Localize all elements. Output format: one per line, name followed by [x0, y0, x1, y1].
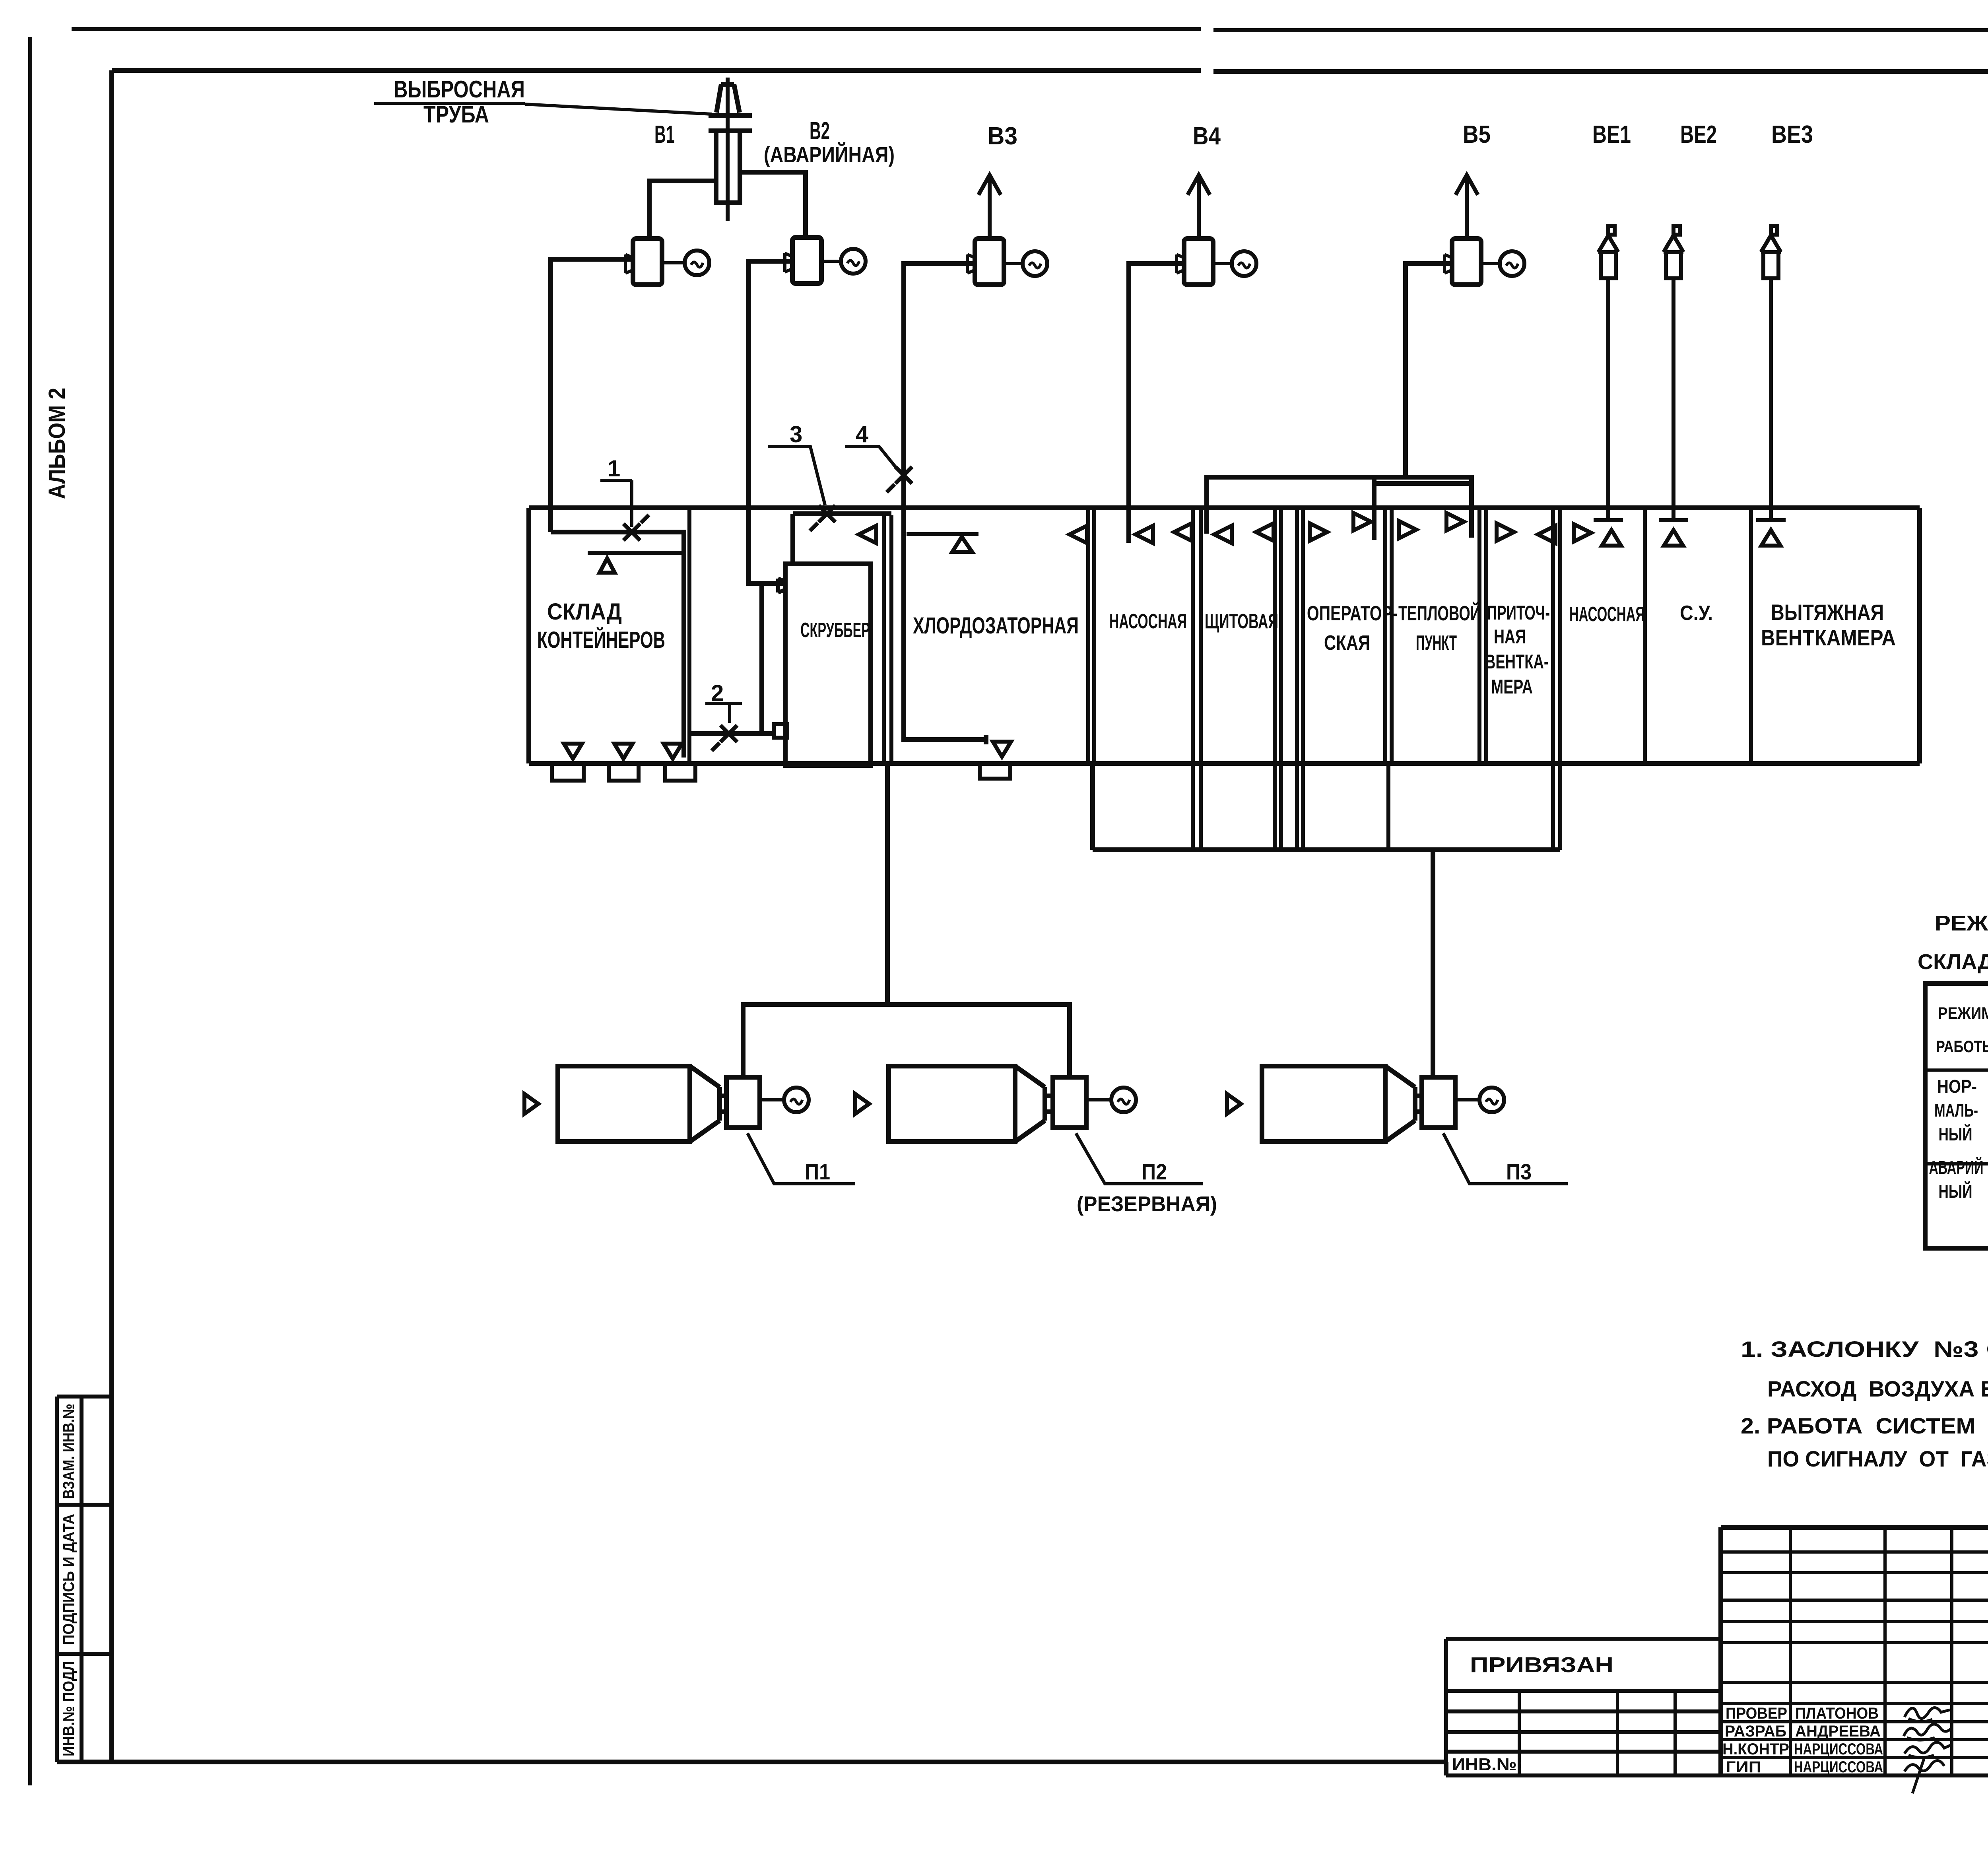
valve 2 label and leader [705, 680, 742, 723]
floor grilles склад [564, 744, 682, 759]
duct collector above building [1207, 477, 1472, 540]
svg-text:РАСХОД ВОЗДУХА В АВАРИЙНОМ Р: РАСХОД ВОЗДУХА В АВАРИЙНОМ РЕЖИМЕ L = 26… [1767, 1376, 1988, 1401]
valve 1 [623, 515, 649, 540]
exhaust stack (выбросная труба) [709, 78, 752, 221]
duct wire B4 intake [1129, 264, 1184, 543]
svg-text:В2: В2 [810, 117, 830, 145]
grille BE1 (bar+triangle) [1594, 520, 1623, 546]
building roof line [529, 505, 1920, 510]
table title [1918, 911, 1988, 974]
sheet top edge line [72, 29, 1988, 30]
duct wire B5 intake [1406, 264, 1452, 477]
wall хлордозаторная/насосная (double) [1088, 508, 1094, 763]
grille BE2 (bar+triangle) [1659, 520, 1688, 546]
svg-text:СКРУББЕР: СКРУББЕР [800, 619, 870, 642]
svg-text:С.У.: С.У. [1680, 602, 1713, 625]
sheet left edge line [28, 37, 32, 1785]
svg-text:МЕРА: МЕРА [1491, 676, 1533, 698]
leader line to exhaust stack [525, 104, 712, 114]
svg-text:ВЕ3: ВЕ3 [1771, 121, 1813, 148]
duct wire stack to fan B2 [740, 172, 806, 237]
airflow triangles left-pointing [859, 523, 1555, 543]
fan B1 [625, 239, 709, 285]
svg-text:В5: В5 [1463, 121, 1491, 148]
duct b1 inside склад [551, 532, 684, 758]
duct склад to scrubber with flange [689, 731, 774, 736]
svg-text:НОР-: НОР- [1937, 1076, 1977, 1097]
foot under хлордозаторная [980, 763, 1010, 779]
svg-text:НАСОСНАЯ: НАСОСНАЯ [1569, 603, 1645, 626]
svg-text:РЕЖИМ: РЕЖИМ [1938, 1004, 1988, 1022]
svg-text:АНДРЕЕВА: АНДРЕЕВА [1795, 1723, 1881, 1740]
label П1 [747, 1133, 855, 1184]
duct collector to П1 П2 [743, 1004, 1070, 1077]
feet under склад [552, 763, 695, 781]
svg-text:НАРЦИССОВА: НАРЦИССОВА [1794, 1758, 1883, 1776]
grille склад (line+triangle) [588, 553, 683, 573]
svg-text:РЕЖИМЫ РАБОТЫ ВЕНТИЛЯЦИИ: РЕЖИМЫ РАБОТЫ ВЕНТИЛЯЦИИ [1935, 911, 1988, 935]
wall приточная/насосная2 pair to basement [1553, 508, 1560, 850]
svg-text:ПРИТОЧ-: ПРИТОЧ- [1487, 602, 1550, 624]
svg-text:ОПЕРАТОР-: ОПЕРАТОР- [1307, 602, 1398, 625]
svg-text:ПОДПИСЬ И ДАТА: ПОДПИСЬ И ДАТА [60, 1514, 78, 1645]
scrubber box [785, 564, 871, 765]
svg-text:МАЛЬ-: МАЛЬ- [1934, 1100, 1978, 1121]
wall тепловой/приточная pair [1479, 508, 1486, 763]
deflector BE2 [1664, 226, 1683, 520]
svg-text:НАСОСНАЯ: НАСОСНАЯ [1109, 610, 1187, 633]
floor grille хлордозаторная [993, 742, 1011, 757]
duct to П1 П2 collector [885, 763, 890, 1004]
svg-text:ИНВ.№ ПОДЛ: ИНВ.№ ПОДЛ [60, 1661, 78, 1756]
title block central grid [1721, 1527, 1988, 1776]
svg-text:АЛЬБОМ 2: АЛЬБОМ 2 [44, 388, 70, 499]
frame top line [112, 70, 1988, 72]
label B2 (аварийная) [764, 117, 895, 167]
svg-text:ХЛОРДОЗАТОРНАЯ: ХЛОРДОЗАТОРНАЯ [913, 613, 1079, 639]
svg-text:ПЛАТОНОВ: ПЛАТОНОВ [1795, 1705, 1879, 1722]
duct wire B2 intake to scrubber [749, 261, 792, 734]
wall су/вытяжная [1749, 508, 1753, 763]
svg-text:ВЕНТКАМЕРА: ВЕНТКАМЕРА [1761, 625, 1896, 650]
basement outline [1093, 763, 1560, 850]
svg-text:КОНТЕЙНЕРОВ: КОНТЕЙНЕРОВ [537, 627, 665, 653]
duct pair scrubber exhaust down [884, 515, 891, 763]
fan B5 [1444, 175, 1524, 285]
notes text [1741, 1336, 1988, 1471]
valve 2 [712, 725, 737, 751]
svg-text:ЩИТОВАЯ: ЩИТОВАЯ [1205, 610, 1278, 633]
svg-text:ТЕПЛОВОЙ: ТЕПЛОВОЙ [1398, 602, 1481, 625]
duct scrubber top stub and valve3 line [793, 514, 891, 564]
frame bottom line [57, 1762, 1446, 1775]
valve 4 [887, 467, 912, 492]
label Выбросная труба [374, 76, 525, 128]
svg-text:НАЯ: НАЯ [1494, 625, 1526, 648]
svg-text:ВЕНТКА-: ВЕНТКА- [1485, 651, 1549, 673]
fan B3 [967, 175, 1047, 285]
grille BE3 (bar+triangle) [1756, 520, 1786, 546]
supply unit П1 [524, 1066, 809, 1142]
svg-text:НЫЙ: НЫЙ [1939, 1181, 1972, 1202]
frame left border [109, 70, 114, 1762]
deflector BE1 [1598, 226, 1618, 520]
svg-text:ПУНКТ: ПУНКТ [1416, 631, 1457, 655]
building right wall [1917, 508, 1922, 763]
supply unit П2 [855, 1066, 1136, 1142]
label ПРИТОЧНАЯ ВЕНТКАМЕРА [1485, 602, 1550, 698]
duct wire B3 intake [904, 264, 986, 744]
valve 4 label and leader [845, 422, 896, 467]
building left wall [526, 508, 531, 763]
svg-text:ВЕ2: ВЕ2 [1680, 121, 1717, 148]
svg-text:АВАРИЙ: АВАРИЙ [1929, 1157, 1984, 1178]
svg-text:2. РАБОТА СИСТЕМ В АВАРИЙНО: 2. РАБОТА СИСТЕМ В АВАРИЙНОМ РЕЖИМЕ АВТО… [1741, 1413, 1988, 1438]
wall насосная/щитовая pair to basement [1193, 508, 1201, 850]
svg-text:П3: П3 [1506, 1159, 1532, 1184]
svg-text:П2: П2 [1142, 1159, 1167, 1184]
wall насосная2/су [1643, 508, 1647, 763]
label ВЫТЯЖНАЯ ВЕНТКАМЕРА [1761, 600, 1896, 650]
svg-text:СКАЯ: СКАЯ [1324, 631, 1370, 655]
duct скруббер inlet flange [778, 579, 785, 592]
svg-text:ВЫБРОСНАЯ: ВЫБРОСНАЯ [394, 76, 525, 103]
fan B4 [1176, 175, 1256, 285]
svg-text:4: 4 [856, 422, 868, 447]
duct wire stack to fan B1 [649, 181, 716, 239]
svg-text:ТРУБА: ТРУБА [423, 101, 489, 128]
svg-text:(АВАРИЙНАЯ): (АВАРИЙНАЯ) [764, 142, 895, 167]
svg-text:ВЫТЯЖНАЯ: ВЫТЯЖНАЯ [1771, 600, 1884, 625]
label СКЛАД КОНТЕЙНЕРОВ [537, 599, 665, 653]
left margin stamp boxes [57, 1397, 112, 1762]
svg-text:3: 3 [790, 422, 802, 447]
valve 1 label and leader [600, 456, 632, 527]
duct wire B1 intake [551, 259, 633, 532]
label ОПЕРАТОРСКАЯ [1307, 602, 1398, 655]
signatures squiggles [1904, 1707, 1952, 1793]
svg-text:ВЗАМ. ИНВ.№: ВЗАМ. ИНВ.№ [60, 1404, 78, 1499]
fan B2 [785, 237, 866, 284]
svg-text:ПО СИГНАЛУ ОТ ГАЗОАНАЛИЗАТОР: ПО СИГНАЛУ ОТ ГАЗОАНАЛИЗАТОРА. [1767, 1446, 1988, 1471]
svg-text:(РЕЗЕРВНАЯ): (РЕЗЕРВНАЯ) [1077, 1192, 1217, 1216]
svg-text:НЫЙ: НЫЙ [1939, 1124, 1972, 1144]
svg-text:РАЗРАБ: РАЗРАБ [1725, 1723, 1786, 1740]
svg-text:СКЛАД: СКЛАД [547, 599, 622, 625]
svg-text:В3: В3 [988, 122, 1017, 150]
valve 3 label and leader [768, 422, 825, 505]
label ТЕПЛОВОЙ ПУНКТ [1398, 602, 1481, 655]
deflector BE3 [1761, 226, 1781, 520]
valve 3 [810, 505, 835, 531]
svg-text:ПРИВЯЗАН: ПРИВЯЗАН [1470, 1653, 1613, 1677]
svg-text:ГИП: ГИП [1726, 1758, 1761, 1776]
svg-text:НАРЦИССОВА: НАРЦИССОВА [1794, 1740, 1883, 1758]
label П2 (резервная) [1076, 1133, 1217, 1216]
svg-text:1. ЗАСЛОНКУ №3 ОТРЕГУЛИРОВАТЬ: 1. ЗАСЛОНКУ №3 ОТРЕГУЛИРОВАТЬ ПРИ НАЛАДК… [1741, 1336, 1988, 1362]
svg-text:СКЛАДА КОНТЕЙНЕРОВ И ХЛОРДОЗА: СКЛАДА КОНТЕЙНЕРОВ И ХЛОРДОЗАТОРНОЙ [1918, 950, 1988, 974]
svg-text:В1: В1 [654, 121, 675, 148]
wall склад right [687, 508, 691, 763]
svg-text:Н.КОНТР: Н.КОНТР [1722, 1740, 1789, 1758]
grille хлордозаторная (line+triangle) [907, 534, 978, 552]
svg-text:ВЕ1: ВЕ1 [1592, 121, 1631, 148]
wall щитовая/операторская pair to basement [1275, 508, 1303, 850]
svg-text:РАБОТЫ: РАБОТЫ [1936, 1037, 1988, 1056]
modes table [1925, 983, 1988, 1248]
basement duct П3 drop [1431, 850, 1435, 1077]
svg-text:ПРОВЕР: ПРОВЕР [1726, 1705, 1787, 1722]
svg-text:1: 1 [608, 456, 620, 482]
airflow triangles right-pointing [1310, 513, 1591, 542]
wall операторская/тепловой pair [1385, 508, 1392, 850]
svg-text:ИНВ.№:: ИНВ.№: [1452, 1755, 1523, 1774]
svg-text:П1: П1 [805, 1159, 830, 1184]
label П3 [1443, 1133, 1568, 1184]
title block left attach table [1446, 1639, 1988, 1775]
building bottom line [529, 761, 1920, 766]
supply unit П3 [1227, 1066, 1504, 1142]
svg-text:В4: В4 [1193, 122, 1221, 150]
